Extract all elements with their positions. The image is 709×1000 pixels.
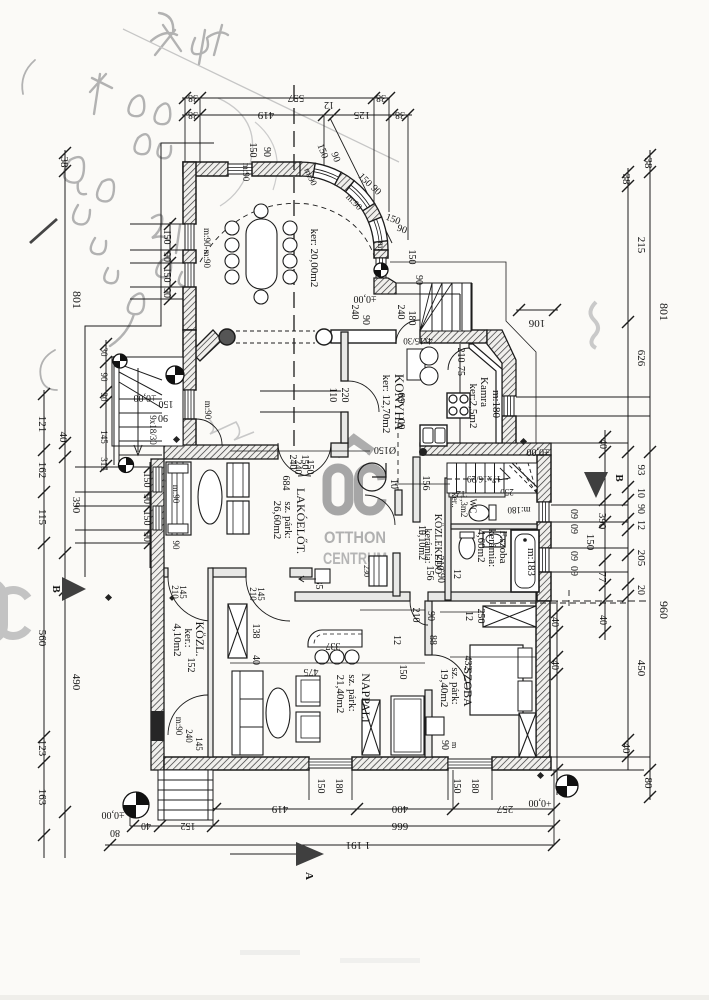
section marker B left triangle [62, 577, 86, 601]
oval coffee table [266, 688, 290, 738]
WC north wall [449, 493, 505, 497]
section marker B right triangle [584, 472, 608, 498]
svg-text:75: 75 [455, 366, 466, 376]
radiator 138 [228, 604, 247, 658]
svg-text:210: 210 [248, 587, 258, 601]
svg-text:77: 77 [596, 572, 608, 584]
svg-text:OTTHON: OTTHON [324, 528, 386, 547]
svg-text:m:: m: [376, 241, 386, 251]
door arc corridor to hall [365, 495, 395, 525]
KOZLEKEDO west wall [413, 457, 420, 522]
right outer chain 38/801/960/80 [649, 150, 651, 800]
porch stair dim labels [105, 340, 107, 470]
svg-text:152: 152 [185, 658, 196, 673]
west wall middle (terrace to entry) [183, 330, 196, 390]
kitchen east window [504, 396, 514, 416]
window in east wall of terrace [376, 258, 386, 278]
svg-text:40: 40 [141, 820, 151, 831]
svg-text:150: 150 [397, 665, 408, 680]
svg-text:9x18/30: 9x18/30 [148, 415, 158, 445]
svg-text:180: 180 [469, 779, 480, 794]
small black dot below sink [419, 448, 427, 456]
svg-text:m:183: m:183 [525, 548, 537, 577]
east wall below arc [374, 250, 388, 258]
survey quadrant circles [166, 366, 184, 384]
svg-text:26,60m2: 26,60m2 [271, 501, 283, 540]
svg-text:88: 88 [427, 635, 438, 645]
door arcs hall to NAPPALI [246, 577, 290, 621]
right third chain 40/390/150/77/40 [604, 430, 606, 640]
interior stair 17x16/29 [447, 463, 537, 493]
top wall segment 2 [252, 162, 301, 176]
svg-text:12: 12 [451, 569, 462, 579]
svg-text:125: 125 [353, 109, 370, 121]
svg-text:m:90: m:90 [171, 485, 181, 504]
nappali/szoba divider wall [425, 601, 432, 655]
svg-text:38: 38 [188, 92, 198, 103]
door 240 from terrace to NE stair [396, 320, 420, 344]
svg-text:801: 801 [70, 291, 84, 309]
kitchen sink double [420, 425, 447, 446]
left window labels upper connectors [130, 224, 183, 299]
svg-text:315: 315 [99, 457, 109, 471]
svg-text:m:180: m:180 [490, 390, 502, 419]
east wall of bedroom [536, 601, 550, 757]
svg-text:20: 20 [635, 585, 646, 595]
left inner dimension chain 121/162/115/560/123/163 [43, 390, 45, 858]
svg-text:09: 09 [568, 524, 579, 534]
svg-text:110: 110 [327, 388, 338, 403]
radiator bottom right szoba [519, 713, 536, 757]
pantry bottom / jog wall [420, 443, 551, 455]
svg-text:162: 162 [36, 462, 48, 479]
svg-text:490: 490 [70, 674, 82, 691]
svg-text:Ø150: Ø150 [374, 444, 396, 455]
svg-text:150: 150 [304, 460, 315, 475]
left window dim chain 150/90/150/90 upper [169, 222, 171, 300]
svg-text:m:90: m:90 [203, 401, 213, 420]
svg-text:40: 40 [597, 615, 608, 625]
eaves thin line NE [390, 262, 536, 443]
svg-text:B: B [50, 585, 62, 593]
svg-text:180: 180 [333, 779, 344, 794]
svg-text:±0,00: ±0,00 [134, 392, 157, 403]
svg-text:12: 12 [391, 635, 402, 645]
svg-text:+0,00: +0,00 [528, 797, 551, 808]
svg-text:684: 684 [280, 476, 291, 491]
west wall below entry [183, 419, 196, 446]
porch stair 9x18/30 [114, 356, 162, 465]
svg-text:40: 40 [57, 432, 69, 444]
svg-text:240: 240 [395, 305, 406, 320]
door arcs hall to KOZL [168, 577, 212, 621]
partial watermark at left page edge [0, 582, 28, 640]
svg-text:90: 90 [158, 412, 168, 423]
svg-text:19,40m2: 19,40m2 [438, 669, 450, 708]
right connectors [516, 397, 650, 770]
section marker A bottom triangle [296, 842, 324, 866]
bath toilet [459, 535, 475, 559]
kitchen door arc [348, 381, 379, 412]
svg-text:150: 150 [247, 143, 258, 158]
svg-text:30: 30 [99, 348, 109, 358]
svg-text:38: 38 [395, 109, 405, 120]
faint compass arcs in terrace [218, 98, 253, 206]
west window 1 [185, 224, 194, 250]
svg-text:156: 156 [424, 566, 435, 581]
svg-text:12: 12 [463, 611, 474, 621]
porch survey circles [113, 354, 127, 368]
svg-text:106: 106 [528, 317, 545, 329]
svg-text:40: 40 [620, 743, 632, 755]
svg-text:163: 163 [36, 789, 48, 806]
dining table [246, 219, 277, 289]
column left round [219, 329, 235, 345]
svg-text:90: 90 [99, 373, 109, 383]
SW exterior stair at bottom [158, 770, 213, 820]
bottom dim line 1191 [105, 844, 554, 846]
striped cabinet block [369, 556, 387, 586]
svg-text:337: 337 [326, 640, 341, 651]
west window 2 [185, 263, 194, 287]
door opening 240 in colonnade wall [420, 330, 487, 343]
scan shadow bottom edge [0, 995, 709, 1000]
black wall chunk west [151, 711, 164, 741]
svg-text:NAPPALI: NAPPALI [359, 673, 373, 723]
radiator west of divider [362, 700, 380, 755]
svg-text:93: 93 [635, 465, 647, 477]
svg-text:150: 150 [159, 398, 174, 409]
armchair 2 [296, 712, 320, 742]
svg-text:90: 90 [413, 275, 424, 285]
pantry interior wall [469, 344, 502, 443]
faint smudge right side [590, 302, 598, 348]
bedroom east 40 dim chain [556, 601, 558, 795]
svg-text:21,40m2: 21,40m2 [334, 675, 346, 714]
entry porch platform [112, 357, 183, 446]
curved bay wall: alternating hatch and window segments [300, 162, 315, 177]
west lower exterior wall [151, 459, 164, 770]
south window 2 [448, 759, 492, 768]
WC/bath divider [451, 524, 537, 529]
west window 4 [153, 506, 162, 530]
top dim line 557 [182, 97, 390, 99]
svg-text:240: 240 [184, 729, 194, 743]
svg-text:A: A [303, 872, 315, 880]
svg-text:09: 09 [568, 551, 579, 561]
svg-text:205: 205 [635, 550, 647, 567]
svg-text:40: 40 [250, 655, 261, 665]
terrace SE corner wall block [374, 278, 396, 294]
svg-text:390: 390 [70, 497, 82, 514]
svg-text:±0,00: ±0,00 [102, 809, 125, 820]
east window bath 2 [539, 548, 549, 572]
svg-text:38: 38 [620, 174, 632, 186]
svg-text:150: 150 [161, 268, 172, 283]
NW step offset line [85, 143, 214, 577]
svg-text:90: 90 [439, 740, 450, 750]
svg-text:80: 80 [642, 778, 654, 790]
NE exterior stair 4x15/30 [420, 283, 471, 331]
svg-text:10: 10 [635, 488, 646, 498]
svg-text:±0,00: ±0,00 [354, 293, 377, 304]
svg-text:145: 145 [194, 737, 204, 751]
svg-text:560: 560 [36, 630, 48, 647]
south window 1 [309, 759, 352, 768]
east window bath 1 [539, 502, 549, 522]
dashed walkway curve in terrace [200, 203, 376, 262]
bottom dim line 666 [130, 825, 554, 827]
svg-text:215: 215 [635, 237, 647, 254]
svg-text:ker: 20,00m2: ker: 20,00m2 [308, 229, 320, 288]
terrace south colonnade wall segment [331, 330, 396, 343]
hall cube chairs [227, 463, 249, 497]
south exterior wall [164, 757, 309, 770]
svg-text:09: 09 [568, 509, 579, 519]
svg-text:1 191: 1 191 [346, 839, 371, 851]
bath/corridor south wall (nappali north-east) [295, 592, 410, 601]
svg-text:12: 12 [324, 99, 334, 110]
faint pencil diagonal line [123, 29, 399, 162]
kitchen east wall lower [502, 416, 516, 447]
svg-text:38: 38 [642, 158, 654, 170]
right second chain 38/215/626/93/10/90/12/205/20/450/40 [627, 168, 629, 770]
svg-text:KONYHA: KONYHA [392, 374, 407, 431]
svg-text:38: 38 [58, 157, 70, 169]
entry door swing arc [196, 419, 222, 445]
svg-text:38: 38 [188, 109, 198, 120]
svg-text:115: 115 [36, 509, 48, 526]
svg-text:30: 30 [99, 393, 109, 403]
svg-text:90: 90 [161, 288, 172, 298]
svg-text:240: 240 [349, 305, 360, 320]
faint smudges bottom [240, 950, 300, 955]
kamra door arc [448, 348, 470, 370]
interior wall kitchen west [341, 332, 348, 381]
corridor KOZL east wall [208, 568, 213, 757]
svg-text:90: 90 [161, 252, 172, 262]
bath sink [483, 532, 505, 547]
diamond dots [105, 594, 112, 601]
corridor top wall (hall south) [164, 568, 168, 577]
west wall pier [183, 250, 196, 263]
colonnade dashed lines [236, 330, 315, 332]
svg-text:123: 123 [36, 740, 48, 757]
bottom connectors [130, 770, 554, 845]
svg-text:180: 180 [406, 311, 417, 326]
svg-text:475: 475 [304, 666, 319, 677]
bed [470, 645, 523, 715]
svg-text:4x15/30: 4x15/30 [403, 336, 433, 346]
svg-text:557: 557 [287, 92, 304, 104]
bottom dim line 419/400/257 [215, 808, 554, 810]
svg-text:90: 90 [435, 573, 446, 583]
svg-text:12: 12 [457, 489, 466, 499]
svg-text:40: 40 [597, 439, 608, 449]
armchair 1 [296, 676, 320, 706]
svg-text:4,10m2: 4,10m2 [171, 623, 183, 656]
svg-text:80: 80 [110, 827, 120, 838]
bedside table [426, 717, 444, 735]
svg-text:ker: 12,70m2: ker: 12,70m2 [380, 375, 392, 434]
svg-text:90: 90 [425, 611, 436, 621]
KOZL bottom door + arc [168, 695, 208, 735]
east wall of stair-bath block [537, 455, 551, 502]
NE landing edge lines [396, 282, 472, 284]
pencil scribbles handwriting top-left [22, 13, 228, 390]
svg-text:801: 801 [657, 303, 671, 321]
WC / bath west wall [445, 478, 451, 600]
radiator top szoba [483, 606, 536, 627]
svg-text:257: 257 [496, 803, 513, 815]
entry door sidelight [185, 390, 194, 419]
inner diagonal corner wall [191, 330, 222, 361]
svg-text:90: 90 [635, 504, 646, 514]
dashed lines bedroom top right [490, 602, 628, 604]
106 dim top right [516, 309, 558, 311]
svg-text:90: 90 [261, 147, 272, 157]
svg-text:sz. párk:: sz. párk: [346, 674, 358, 711]
top connectors [185, 98, 408, 243]
svg-text:m:90-m:90: m:90-m:90 [202, 228, 212, 268]
svg-text:156: 156 [420, 476, 431, 491]
svg-text:m: m [450, 742, 459, 749]
svg-text:m:180: m:180 [507, 505, 531, 515]
svg-text:419: 419 [257, 109, 274, 121]
column right round [316, 329, 332, 345]
svg-text:220: 220 [339, 388, 350, 403]
svg-text:±0,00: ±0,00 [527, 446, 550, 457]
dining chairs [225, 221, 239, 235]
dark pencil slash [30, 219, 57, 243]
svg-text:419: 419 [271, 803, 288, 815]
svg-text:150: 150 [315, 779, 326, 794]
corridor west wall [395, 490, 402, 515]
door 240 arcs between terrace and hall [278, 443, 311, 476]
pencil squiggle in hall [208, 418, 254, 440]
svg-text:400: 400 [391, 803, 408, 815]
svg-text:B: B [613, 474, 625, 482]
west wall upper (terrace) [183, 162, 196, 224]
hall oval table [198, 470, 222, 524]
west window 3 [153, 467, 162, 492]
svg-text:4,60m2: 4,60m2 [475, 529, 487, 562]
svg-text:240: 240 [292, 460, 303, 475]
svg-text:17x16/29: 17x16/29 [467, 474, 502, 484]
kitchen upper cabinets + fridge [407, 349, 425, 380]
svg-text:626: 626 [635, 350, 647, 367]
NE diagonal exterior wall [487, 330, 516, 396]
left window dim chain 150/90/150/90 lower [149, 462, 151, 568]
stove 4 burners [447, 393, 470, 418]
svg-text:152: 152 [181, 820, 196, 831]
svg-text:KÖZL.: KÖZL. [193, 622, 207, 657]
svg-text:960: 960 [657, 601, 671, 619]
west wall lower part of terrace [183, 287, 196, 330]
svg-text:10: 10 [416, 525, 427, 535]
svg-text:450: 450 [635, 660, 647, 677]
svg-text:09: 09 [568, 566, 579, 576]
exterior top wall of terrace room [183, 162, 228, 176]
top dim line 419/12/125 [182, 114, 412, 116]
small cube chair hall [315, 569, 330, 583]
svg-text:150: 150 [406, 250, 417, 265]
bathtub [511, 530, 539, 592]
daybed next to divider [391, 696, 424, 755]
svg-text:150: 150 [161, 230, 172, 245]
svg-text:138: 138 [250, 624, 261, 639]
svg-text:121: 121 [36, 416, 48, 433]
kitchen counter edge [459, 344, 461, 443]
counter stools [315, 650, 329, 664]
svg-text:38: 38 [376, 92, 386, 103]
WC toilet [469, 505, 489, 521]
svg-text:m:90: m:90 [241, 163, 251, 182]
svg-text:LAKÓELŐT.: LAKÓELŐT. [294, 488, 308, 554]
svg-text:210: 210 [455, 348, 466, 363]
svg-text:90: 90 [171, 541, 181, 551]
hall bench [166, 462, 191, 535]
svg-text:90: 90 [360, 315, 371, 325]
svg-text:SZOBA: SZOBA [461, 667, 475, 707]
svg-text:250: 250 [475, 609, 486, 624]
interior wall hall north [164, 445, 278, 459]
svg-text:ker:2,5m2: ker:2,5m2 [467, 384, 479, 429]
svg-text:390: 390 [596, 513, 608, 530]
sofa 3-seat [232, 671, 263, 755]
diamond at entry [173, 436, 180, 443]
center axis dash line vertical [293, 85, 295, 450]
window in top wall [228, 164, 252, 174]
watermark OC Otthon Centrum logo [336, 439, 372, 457]
svg-text:230: 230 [362, 565, 371, 577]
flue circle [358, 463, 386, 491]
svg-text:12: 12 [635, 520, 646, 530]
svg-text:666: 666 [391, 820, 408, 832]
left outer dimension chain 38/801/40/390/490 [64, 150, 66, 858]
svg-text:m:90: m:90 [174, 717, 184, 736]
curved counter [308, 630, 362, 647]
svg-text:145: 145 [99, 430, 109, 444]
